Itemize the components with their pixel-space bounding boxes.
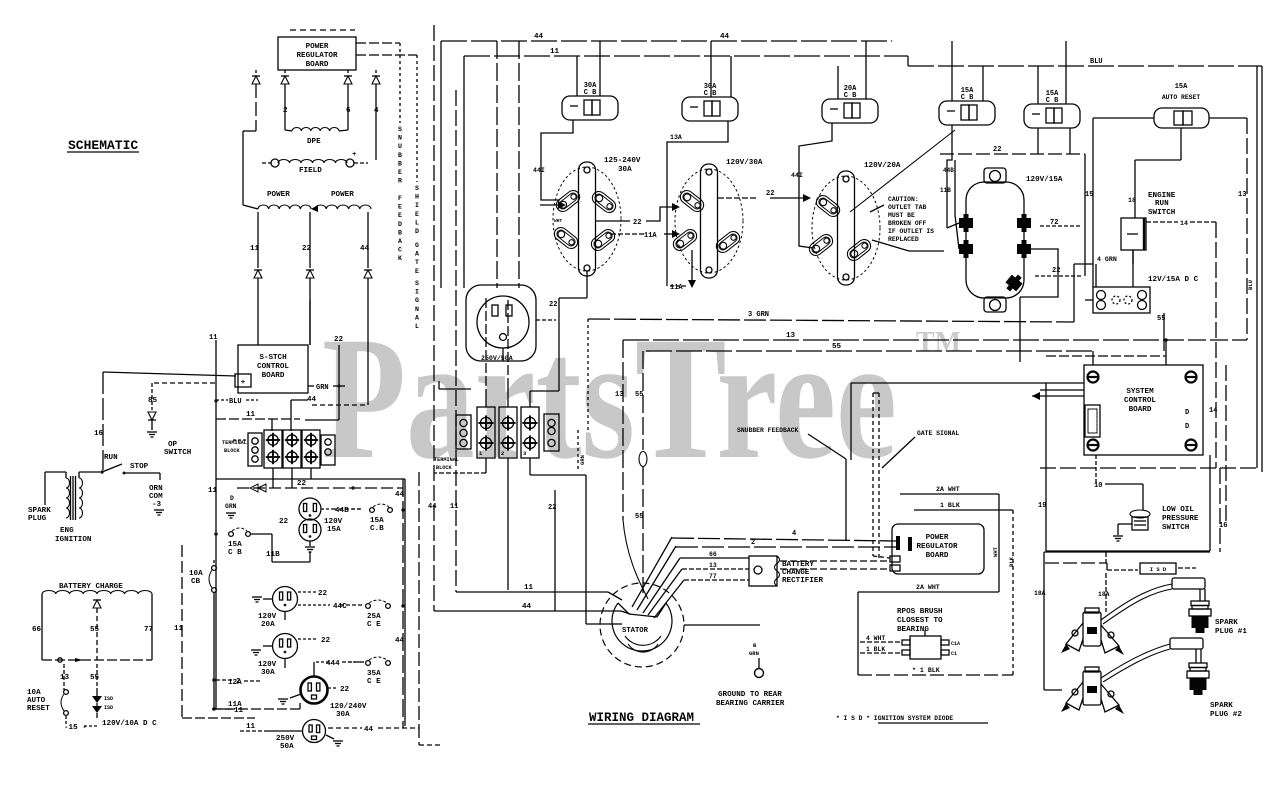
svg-text:-3: -3 (152, 501, 162, 509)
svg-text:OP: OP (168, 441, 178, 449)
svg-text:11: 11 (246, 411, 256, 419)
svg-text:BATTERY CHARGE: BATTERY CHARGE (59, 583, 123, 591)
svg-text:11: 11 (208, 487, 218, 495)
svg-text:BLU: BLU (229, 398, 242, 406)
svg-text:11: 11 (550, 48, 560, 56)
svg-text:E: E (398, 212, 402, 219)
svg-text:POWER: POWER (926, 534, 949, 542)
svg-text:PLUG #1: PLUG #1 (1215, 628, 1247, 636)
svg-text:WHT: WHT (554, 218, 562, 224)
svg-text:TERMINAL: TERMINAL (434, 457, 459, 463)
svg-text:22: 22 (766, 190, 774, 198)
svg-text:GRN: GRN (316, 384, 329, 392)
svg-text:11A: 11A (644, 232, 657, 240)
svg-text:K: K (398, 255, 402, 262)
svg-text:H: H (415, 194, 419, 201)
svg-text:55: 55 (1157, 315, 1165, 323)
svg-text:11B: 11B (940, 187, 951, 194)
svg-text:11: 11 (450, 503, 458, 511)
svg-text:B: B (398, 152, 402, 159)
svg-text:D: D (415, 228, 419, 235)
svg-text:BOARD: BOARD (262, 372, 285, 380)
svg-text:SPARK: SPARK (1210, 702, 1233, 710)
svg-text:120/240V: 120/240V (330, 703, 367, 711)
svg-text:+: + (241, 379, 246, 387)
svg-text:REGULATOR: REGULATOR (916, 543, 957, 551)
svg-text:ISD: ISD (104, 705, 113, 711)
svg-text:11: 11 (524, 584, 534, 592)
svg-text:1 BLK: 1 BLK (940, 502, 960, 509)
svg-text:BLOCK: BLOCK (224, 448, 240, 454)
svg-text:77: 77 (709, 573, 717, 580)
svg-text:22: 22 (318, 590, 328, 598)
svg-text:C B: C B (228, 549, 242, 557)
svg-text:14: 14 (1180, 220, 1188, 227)
svg-text:POWER: POWER (306, 43, 329, 51)
svg-text:55: 55 (832, 343, 842, 351)
svg-text:4 WHT: 4 WHT (866, 635, 885, 642)
svg-text:19: 19 (1038, 502, 1046, 510)
svg-text:22: 22 (633, 219, 641, 227)
svg-text:16: 16 (1219, 522, 1227, 530)
svg-text:12A: 12A (228, 679, 242, 687)
svg-text:BLU: BLU (1247, 280, 1254, 290)
svg-text:22: 22 (279, 518, 289, 526)
svg-text:BROKEN OFF: BROKEN OFF (888, 220, 927, 227)
svg-text:A: A (398, 238, 402, 245)
svg-text:22: 22 (548, 504, 556, 512)
svg-text:44I: 44I (533, 167, 545, 174)
svg-text:120V/10A D C: 120V/10A D C (102, 720, 157, 728)
svg-text:30A: 30A (261, 669, 275, 677)
svg-text:N: N (415, 306, 419, 313)
svg-text:ORN: ORN (149, 485, 163, 493)
svg-text:11: 11 (174, 625, 184, 633)
svg-text:BLK: BLK (1008, 556, 1015, 567)
svg-text:C1A: C1A (951, 641, 960, 647)
svg-text:1 BLK: 1 BLK (866, 646, 885, 653)
svg-text:120V: 120V (258, 661, 277, 669)
svg-text:TERMINAL: TERMINAL (222, 440, 247, 446)
svg-text:+: + (352, 151, 357, 159)
svg-text:* I S D * IGNITION SYSTEM DI: * I S D * IGNITION SYSTEM DIODE (836, 715, 953, 722)
svg-text:GRN: GRN (749, 650, 759, 657)
svg-text:RESET: RESET (27, 705, 50, 713)
svg-text:BLU: BLU (1090, 58, 1103, 66)
svg-text:25A: 25A (367, 613, 381, 621)
svg-text:R: R (398, 178, 402, 185)
svg-text:2: 2 (751, 539, 755, 547)
svg-text:22: 22 (302, 245, 312, 253)
svg-text:15: 15 (1085, 191, 1093, 199)
svg-text:11: 11 (209, 334, 217, 342)
svg-text:IGNITION: IGNITION (55, 536, 92, 544)
svg-text:44: 44 (307, 396, 317, 404)
svg-text:GROUND TO REAR: GROUND TO REAR (718, 691, 782, 699)
svg-text:L: L (415, 323, 419, 330)
svg-text:18A: 18A (1098, 591, 1110, 598)
svg-text:15A: 15A (370, 517, 384, 525)
svg-text:13: 13 (615, 391, 623, 399)
svg-text:S: S (398, 126, 402, 133)
svg-text:WHT: WHT (992, 546, 999, 557)
svg-text:C1: C1 (951, 651, 957, 657)
svg-text:120V: 120V (324, 518, 343, 526)
svg-text:44: 44 (522, 603, 532, 611)
svg-text:125-240V: 125-240V (604, 157, 641, 165)
svg-text:13: 13 (1238, 191, 1246, 199)
svg-text:22: 22 (297, 480, 307, 488)
svg-text:RUN: RUN (1155, 200, 1169, 208)
svg-text:22: 22 (334, 336, 344, 344)
svg-text:120V/30A: 120V/30A (726, 159, 763, 167)
svg-text:SPARK: SPARK (28, 507, 51, 515)
svg-text:AUTO: AUTO (27, 697, 46, 705)
svg-text:B: B (398, 229, 402, 236)
svg-text:30A: 30A (618, 166, 632, 174)
svg-text:ENGINE: ENGINE (1148, 192, 1176, 200)
svg-text:C B: C B (584, 89, 597, 97)
svg-text:GRN: GRN (225, 503, 237, 510)
svg-text:C: C (398, 247, 402, 254)
svg-text:11: 11 (250, 245, 260, 253)
svg-text:85: 85 (148, 397, 158, 405)
svg-text:C B: C B (961, 94, 974, 102)
svg-text:S: S (415, 280, 419, 287)
svg-text:44: 44 (534, 33, 544, 41)
svg-text:PRESSURE: PRESSURE (1162, 515, 1199, 523)
svg-text:10A: 10A (189, 570, 203, 578)
svg-text:D: D (230, 495, 234, 502)
svg-text:G: G (415, 297, 419, 304)
svg-text:IF OUTLET IS: IF OUTLET IS (888, 228, 934, 235)
svg-text:30A: 30A (336, 711, 350, 719)
svg-text:LOW OIL: LOW OIL (1162, 506, 1194, 514)
svg-text:F: F (398, 195, 402, 202)
svg-text:14: 14 (1209, 407, 1217, 415)
svg-text:44B: 44B (335, 507, 349, 515)
svg-text:11A: 11A (228, 701, 242, 709)
svg-text:I: I (415, 289, 419, 296)
svg-text:4 GRN: 4 GRN (1097, 256, 1117, 263)
svg-text:13: 13 (786, 332, 796, 340)
svg-text:RPOS BRUSH: RPOS BRUSH (897, 608, 943, 616)
svg-text:-15 -: -15 - (64, 724, 87, 732)
svg-text:13A: 13A (670, 134, 682, 141)
svg-text:3 GRN: 3 GRN (748, 311, 769, 319)
svg-text:DPE: DPE (307, 138, 321, 146)
svg-text:11B: 11B (266, 551, 280, 559)
svg-text:11A: 11A (670, 284, 683, 292)
svg-text:GATE SIGNAL: GATE SIGNAL (917, 430, 959, 437)
svg-text:44C: 44C (333, 603, 347, 611)
svg-text:120V/20A: 120V/20A (864, 162, 901, 170)
svg-text:55: 55 (635, 391, 643, 399)
svg-text:WIRING DIAGRAM: WIRING DIAGRAM (589, 711, 694, 725)
svg-text:44: 44 (428, 503, 436, 511)
svg-text:T: T (415, 259, 419, 266)
svg-text:D: D (1185, 423, 1189, 431)
svg-text:BEARING CARRIER: BEARING CARRIER (716, 700, 785, 708)
svg-text:MUST BE: MUST BE (888, 212, 915, 219)
svg-text:18: 18 (1128, 197, 1136, 204)
svg-text:250V/50A: 250V/50A (481, 355, 513, 362)
svg-text:G: G (415, 242, 419, 249)
svg-text:4: 4 (792, 530, 796, 538)
svg-text:250V: 250V (276, 735, 295, 743)
svg-text:50A: 50A (280, 743, 294, 751)
svg-text:22: 22 (321, 637, 331, 645)
svg-text:COM: COM (149, 493, 163, 501)
svg-text:PLUG #2: PLUG #2 (1210, 711, 1242, 719)
svg-text:ISD: ISD (104, 696, 113, 702)
svg-text:55: 55 (90, 674, 100, 682)
svg-text:D: D (1185, 409, 1189, 417)
svg-text:E: E (398, 169, 402, 176)
svg-text:SYSTEM: SYSTEM (1126, 388, 1154, 396)
svg-text:I: I (415, 202, 419, 209)
svg-text:72: 72 (1050, 219, 1058, 227)
svg-text:22: 22 (549, 301, 557, 309)
svg-text:2A WHT: 2A WHT (936, 486, 960, 493)
svg-text:A: A (415, 251, 419, 258)
svg-text:35A: 35A (367, 670, 381, 678)
svg-text:22: 22 (993, 146, 1001, 154)
svg-text:S: S (415, 185, 419, 192)
svg-text:CONTROL: CONTROL (1124, 397, 1156, 405)
svg-text:12V/15A D C: 12V/15A D C (1148, 276, 1199, 284)
svg-text:2: 2 (501, 450, 504, 457)
svg-text:D: D (398, 221, 402, 228)
svg-text:SWITCH: SWITCH (164, 449, 192, 457)
svg-text:STOP: STOP (130, 463, 149, 471)
svg-text:SPARK: SPARK (1215, 619, 1238, 627)
svg-text:POWER: POWER (331, 191, 354, 199)
svg-text:66: 66 (32, 626, 42, 634)
svg-text:BOARD: BOARD (1129, 406, 1152, 414)
svg-text:OUTLET TAB: OUTLET TAB (888, 204, 927, 211)
svg-text:55: 55 (635, 513, 643, 521)
svg-text:44B: 44B (943, 167, 954, 174)
svg-text:B: B (398, 160, 402, 167)
svg-text:GRN: GRN (579, 455, 586, 465)
svg-text:20A: 20A (261, 621, 275, 629)
svg-text:44: 44 (360, 245, 370, 253)
svg-text:RECTIFIER: RECTIFIER (782, 577, 823, 585)
svg-text:SCHEMATIC: SCHEMATIC (68, 138, 138, 153)
svg-text:PLUG: PLUG (28, 515, 47, 523)
svg-text:10A: 10A (27, 689, 41, 697)
svg-text:A: A (415, 314, 419, 321)
svg-text:55: 55 (90, 626, 100, 634)
svg-text:CB: CB (191, 578, 201, 586)
svg-text:ENG: ENG (60, 527, 74, 535)
svg-text:PartsTree: PartsTree (322, 301, 897, 496)
svg-text:44: 44 (364, 726, 374, 734)
svg-text:120V: 120V (258, 613, 277, 621)
svg-text:C E: C E (367, 678, 381, 686)
svg-text:U: U (398, 143, 402, 150)
svg-text:120V/15A: 120V/15A (1026, 176, 1063, 184)
svg-text:13: 13 (60, 674, 70, 682)
svg-text:22: 22 (340, 686, 350, 694)
svg-text:C E: C E (367, 621, 381, 629)
svg-text:11: 11 (246, 723, 256, 731)
svg-text:C B: C B (1046, 97, 1059, 105)
svg-text:* 1 BLK: * 1 BLK (912, 667, 940, 674)
svg-text:RUN: RUN (104, 454, 118, 462)
svg-text:15A: 15A (327, 526, 341, 534)
svg-text:15A: 15A (228, 541, 242, 549)
svg-text:REPLACED: REPLACED (888, 236, 919, 243)
svg-text:66: 66 (709, 551, 717, 558)
svg-text:444: 444 (326, 660, 340, 668)
svg-text:POWER: POWER (267, 191, 290, 199)
svg-text:L: L (415, 219, 419, 226)
svg-text:BOARD: BOARD (926, 552, 949, 560)
svg-text:CAUTION:: CAUTION: (888, 196, 919, 203)
svg-text:SWITCH: SWITCH (1148, 209, 1176, 217)
svg-text:CONTROL: CONTROL (257, 363, 289, 371)
svg-text:E: E (415, 211, 419, 218)
svg-text:CHANGE: CHANGE (782, 569, 810, 577)
svg-text:SNUBBER FEEDBACK: SNUBBER FEEDBACK (737, 427, 799, 434)
svg-text:44I: 44I (791, 172, 803, 179)
svg-text:STATOR: STATOR (622, 627, 649, 635)
svg-text:44: 44 (720, 33, 730, 41)
svg-text:S-STCH: S-STCH (259, 354, 287, 362)
svg-text:N: N (398, 135, 402, 142)
svg-text:C.B: C.B (370, 525, 384, 533)
svg-text:16: 16 (94, 430, 104, 438)
svg-text:AUTO RESET: AUTO RESET (1162, 94, 1201, 101)
svg-text:10: 10 (1094, 482, 1102, 490)
svg-text:77: 77 (144, 626, 154, 634)
svg-text:SWITCH: SWITCH (1162, 524, 1190, 532)
svg-text:BOARD: BOARD (306, 61, 329, 69)
svg-text:2A WHT: 2A WHT (916, 584, 940, 591)
svg-text:REGULATOR: REGULATOR (296, 52, 337, 60)
svg-text:13: 13 (709, 562, 717, 569)
svg-text:CLOSEST TO: CLOSEST TO (897, 617, 943, 625)
svg-text:22: 22 (1052, 267, 1060, 275)
svg-text:18A: 18A (1034, 590, 1046, 597)
svg-text:E: E (415, 268, 419, 275)
svg-text:FIELD: FIELD (299, 167, 322, 175)
svg-text:C B: C B (844, 92, 857, 100)
svg-text:15A: 15A (1175, 83, 1188, 91)
svg-text:TM: TM (916, 327, 961, 358)
svg-text:I S D: I S D (1150, 566, 1167, 573)
svg-text:BATTERY: BATTERY (782, 561, 814, 569)
svg-text:BLOCK: BLOCK (436, 465, 452, 471)
svg-text:E: E (398, 204, 402, 211)
